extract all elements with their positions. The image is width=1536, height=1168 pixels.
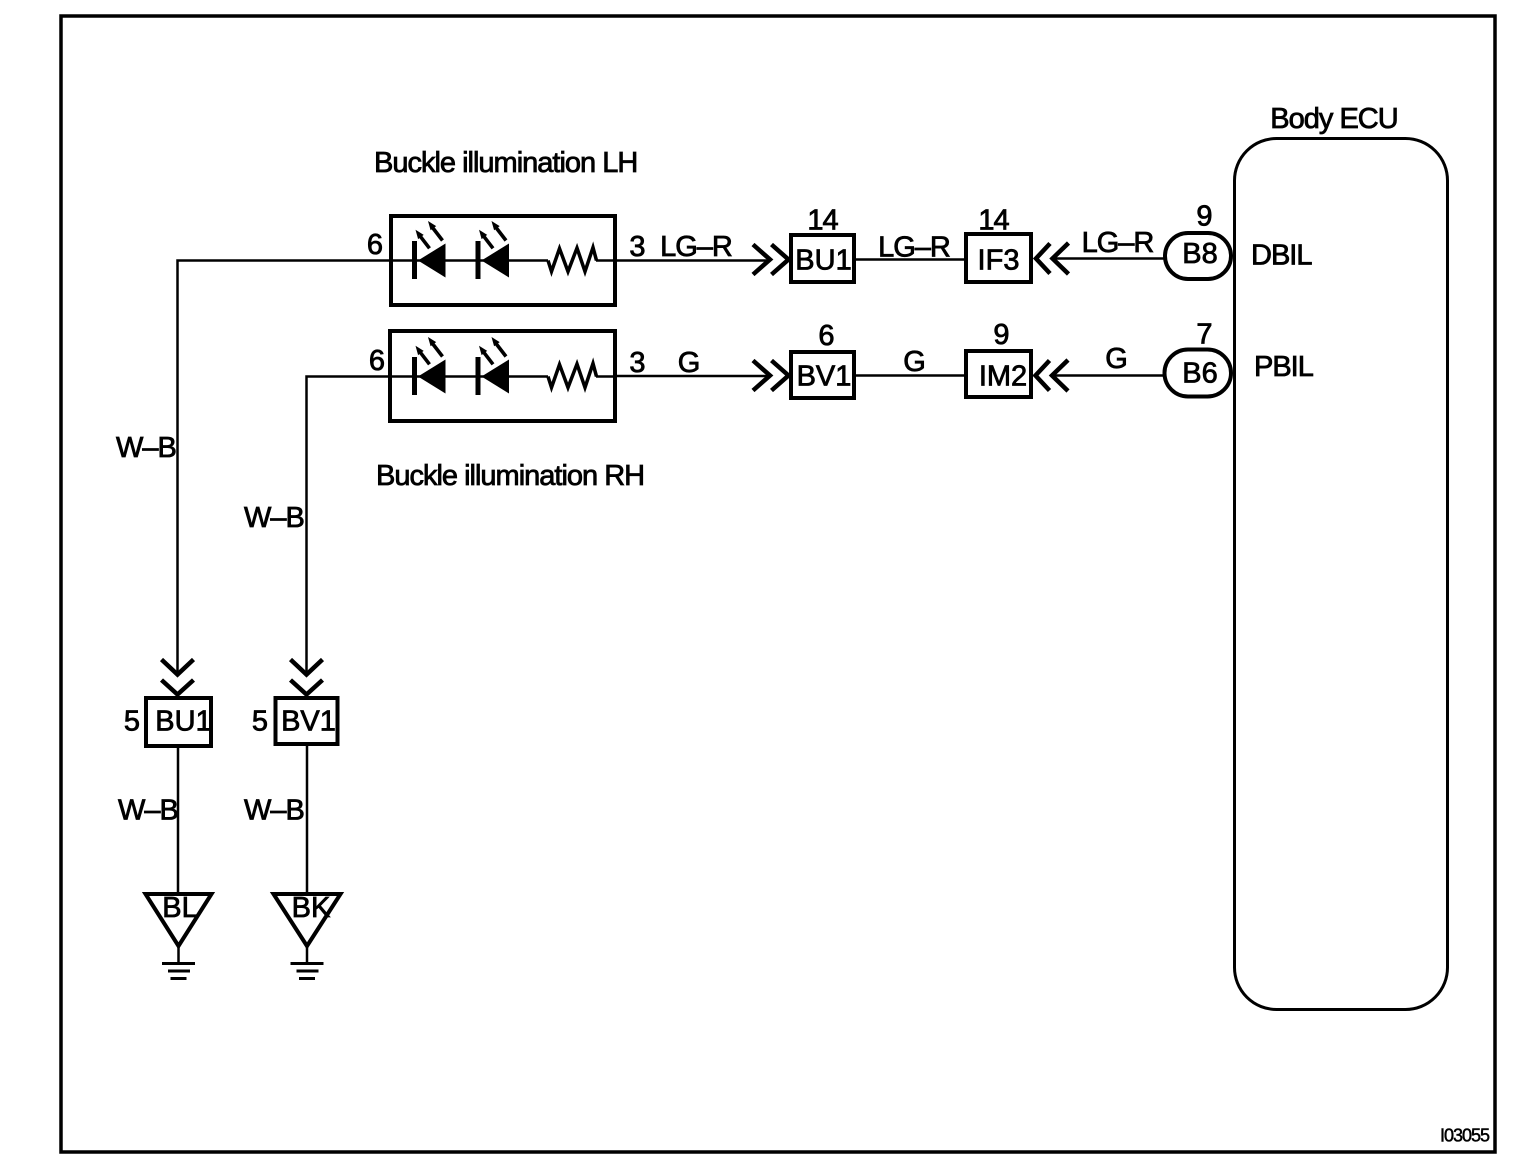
svg-text:PBIL: PBIL — [1254, 351, 1314, 383]
junction arrows into BV1 bottom — [291, 660, 323, 695]
junction arrows out of IM2 — [1036, 360, 1069, 391]
svg-text:Buckle illumination RH: Buckle illumination RH — [376, 460, 644, 492]
svg-text:Body ECU: Body ECU — [1270, 103, 1397, 135]
ground BL triangle — [146, 894, 212, 946]
svg-text:W–B: W–B — [116, 432, 176, 464]
svg-text:6: 6 — [369, 345, 384, 377]
svg-text:9: 9 — [1196, 201, 1211, 233]
svg-text:BK: BK — [292, 892, 331, 924]
svg-text:Buckle illumination LH: Buckle illumination LH — [374, 147, 637, 179]
connector IM2 — [966, 351, 1031, 397]
connector BU1 bottom — [146, 698, 211, 746]
LED D4 — [476, 337, 510, 395]
junction arrows out of IF3 — [1036, 243, 1069, 274]
connector B8 — [1165, 233, 1231, 279]
svg-text:7: 7 — [1196, 319, 1211, 351]
wire LG-R BU1 to IF3 — [856, 258, 964, 261]
junction arrows into BU1 row 1 — [753, 245, 789, 275]
LED D2 — [476, 221, 510, 279]
svg-text:5: 5 — [252, 706, 267, 738]
wire W-B from RH pin 6 down to junction BV1 — [307, 377, 391, 674]
svg-text:B8: B8 — [1182, 238, 1217, 270]
wire G BV1 to IM2 — [856, 374, 964, 377]
wire W-B BV1 to ground BK — [306, 744, 309, 894]
svg-text:LG–R: LG–R — [1082, 227, 1154, 259]
svg-text:3: 3 — [629, 231, 644, 263]
svg-text:I03055: I03055 — [1440, 1126, 1490, 1146]
ground symbol BK — [291, 964, 324, 979]
ground BK triangle — [274, 894, 341, 946]
svg-text:14: 14 — [807, 205, 838, 237]
wire inside LH lamp — [390, 259, 617, 262]
svg-text:BL: BL — [162, 892, 197, 924]
svg-text:G: G — [678, 347, 700, 379]
svg-text:3: 3 — [629, 347, 644, 379]
ground symbol BL — [162, 964, 195, 979]
resistor R1 — [548, 248, 597, 272]
wire G IM2 to B6 — [1052, 374, 1164, 377]
svg-text:IF3: IF3 — [978, 245, 1020, 277]
svg-text:LG–R: LG–R — [878, 232, 950, 264]
svg-text:W–B: W–B — [244, 795, 304, 827]
wire G from RH pin 3 to junction — [617, 375, 769, 378]
svg-text:W–B: W–B — [118, 795, 178, 827]
svg-text:6: 6 — [818, 320, 833, 352]
svg-text:DBIL: DBIL — [1251, 240, 1312, 272]
junction arrows into BV1 row 2 — [753, 361, 789, 391]
svg-text:BV1: BV1 — [281, 706, 336, 738]
connector IF3 — [966, 234, 1031, 282]
wire W-B BU1 to ground BL — [177, 746, 180, 894]
connector BV1 bottom — [276, 698, 338, 744]
svg-text:LG–R: LG–R — [660, 231, 732, 263]
svg-text:G: G — [903, 346, 925, 378]
connector BU1 (junction) — [791, 235, 854, 282]
LED D1 — [412, 221, 446, 279]
svg-text:BV1: BV1 — [797, 361, 852, 393]
buckle illumination LH box — [391, 216, 615, 305]
wire LG-R from LH pin 3 to junction — [617, 259, 769, 262]
Body ECU — [1235, 139, 1448, 1010]
wire BL to ground — [177, 944, 180, 962]
svg-text:W–B: W–B — [244, 502, 304, 534]
svg-text:BU1: BU1 — [155, 706, 211, 738]
svg-text:B6: B6 — [1182, 358, 1217, 390]
svg-text:BU1: BU1 — [795, 245, 851, 277]
svg-text:9: 9 — [993, 319, 1008, 351]
buckle illumination RH box — [390, 331, 615, 421]
junction arrows into BU1 bottom — [162, 660, 194, 695]
svg-text:14: 14 — [978, 205, 1009, 237]
wire LG-R IF3 to B8 — [1053, 257, 1165, 260]
svg-text:IM2: IM2 — [979, 361, 1027, 393]
connector B6 — [1165, 350, 1232, 397]
resistor R2 — [548, 364, 597, 388]
connector BV1 (junction) — [791, 352, 854, 398]
wire inside RH lamp — [389, 375, 617, 378]
svg-text:G: G — [1105, 343, 1127, 375]
wire BK to ground — [306, 944, 309, 962]
svg-text:5: 5 — [124, 706, 139, 738]
LED D3 — [412, 337, 446, 395]
wire W-B from LH pin 6 down to junction BU1 — [178, 261, 392, 674]
svg-text:6: 6 — [367, 229, 382, 261]
